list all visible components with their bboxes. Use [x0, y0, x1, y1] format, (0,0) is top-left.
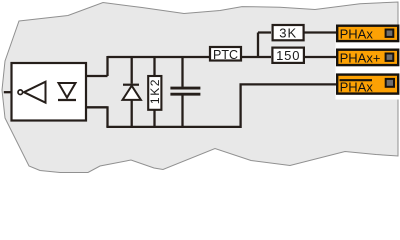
svg-text:1K2: 1K2: [148, 78, 162, 104]
svg-text:150: 150: [276, 48, 300, 63]
svg-text:PHAx+: PHAx+: [340, 50, 381, 65]
svg-text:3K: 3K: [279, 26, 297, 41]
svg-text:PTC: PTC: [213, 48, 238, 62]
svg-text:PHAx: PHAx: [340, 80, 374, 95]
svg-text:PHAx: PHAx: [340, 26, 374, 41]
